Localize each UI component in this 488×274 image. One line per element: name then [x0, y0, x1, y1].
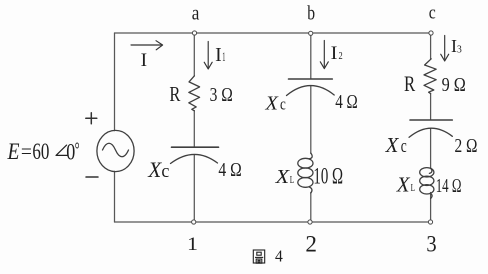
- svg-text:4 Ω: 4 Ω: [335, 92, 358, 113]
- svg-text:1: 1: [187, 234, 198, 255]
- svg-text:X: X: [275, 166, 290, 188]
- svg-text:c: c: [401, 137, 407, 157]
- svg-text:b: b: [307, 3, 315, 24]
- svg-text:1: 1: [222, 49, 225, 64]
- svg-text:X: X: [396, 172, 411, 196]
- svg-text:9 Ω: 9 Ω: [442, 74, 466, 96]
- svg-text:c: c: [161, 161, 169, 182]
- svg-text:3 Ω: 3 Ω: [210, 84, 233, 106]
- svg-text:3: 3: [457, 43, 462, 55]
- svg-text:E: E: [7, 139, 20, 164]
- svg-text:X: X: [385, 133, 400, 157]
- svg-text:2: 2: [305, 231, 317, 256]
- svg-text:°: °: [75, 139, 80, 161]
- svg-text:X: X: [264, 92, 278, 114]
- svg-text:4 Ω: 4 Ω: [218, 159, 241, 181]
- svg-text:60: 60: [32, 139, 49, 164]
- svg-text:3: 3: [426, 231, 436, 256]
- svg-text:X: X: [147, 157, 162, 182]
- svg-text:I: I: [215, 45, 222, 66]
- svg-text:I: I: [331, 44, 338, 64]
- svg-text:=: =: [21, 139, 32, 163]
- svg-text:2: 2: [339, 51, 343, 62]
- svg-text:R: R: [404, 71, 415, 96]
- svg-text:2 Ω: 2 Ω: [455, 135, 478, 157]
- svg-text:L: L: [290, 174, 295, 186]
- svg-text:10 Ω: 10 Ω: [313, 164, 343, 190]
- svg-text:4: 4: [275, 246, 283, 265]
- svg-text:a: a: [192, 2, 200, 24]
- svg-text:I: I: [141, 51, 148, 71]
- svg-text:14 Ω: 14 Ω: [436, 175, 462, 197]
- svg-text:R: R: [169, 82, 181, 106]
- svg-text:c: c: [429, 2, 436, 23]
- svg-text:c: c: [280, 94, 286, 113]
- svg-text:L: L: [411, 183, 415, 194]
